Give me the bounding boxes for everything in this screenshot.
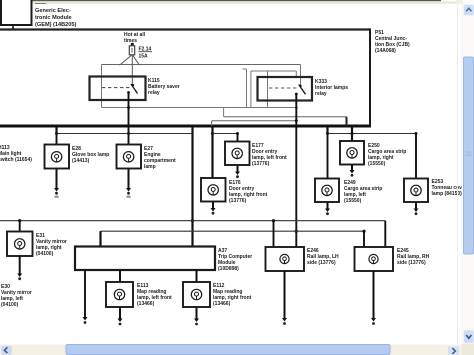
- wire bus y120.8: [212, 120, 297, 122]
- label E112: [213, 283, 252, 307]
- relay K115 battery saver: [90, 77, 146, 101]
- module A37 trip computer: [75, 247, 215, 271]
- wire E112 ground: [194, 307, 199, 325]
- lamp E113 map reading left: [106, 282, 133, 307]
- label H113: [0, 145, 32, 163]
- wire E177 tee: [213, 132, 240, 142]
- scrollbar horizontal thumb: [66, 345, 390, 355]
- wire stub E249: [326, 126, 328, 134]
- svg-text:times: times: [124, 38, 137, 44]
- label E176: [229, 180, 268, 204]
- wire K115 output: [127, 93, 130, 134]
- wire E31 ground: [17, 256, 22, 280]
- scrollbar horizontal right button: [448, 346, 460, 355]
- label K333: [315, 79, 348, 97]
- label P51 CJB: [375, 30, 410, 54]
- svg-text:(04100): (04100): [36, 251, 54, 257]
- wire E245 ground: [371, 271, 376, 325]
- svg-text:(13466): (13466): [213, 301, 231, 307]
- wire E113 ground: [118, 307, 123, 325]
- svg-text:(15550): (15550): [368, 161, 386, 167]
- lamp E246 rail LH: [266, 247, 305, 271]
- svg-text:(13776): (13776): [252, 161, 270, 167]
- wire E245 left drop: [363, 231, 365, 247]
- wire E253 ground: [414, 202, 419, 215]
- wire E245 right drop: [384, 221, 386, 247]
- lamp E249 cargo strip left: [315, 179, 339, 203]
- wire E28 drop: [56, 134, 58, 145]
- label E27: [144, 146, 176, 170]
- svg-text:lamp: lamp: [144, 164, 156, 170]
- wire trunk x193: [191, 126, 194, 247]
- wire fuse split V: [120, 55, 140, 85]
- svg-text:(04100): (04100): [1, 302, 19, 308]
- wire A37 ground 1: [83, 270, 88, 324]
- wire E250 ground: [350, 165, 355, 177]
- svg-text:Generic Elec-: Generic Elec-: [35, 8, 71, 14]
- lamp E253 tonneau cover: [404, 179, 428, 203]
- scrollbar horizontal left button: [1, 346, 12, 355]
- svg-text:switch (11654): switch (11654): [0, 157, 32, 163]
- scrollbar corner: [462, 344, 474, 355]
- label E253: [432, 179, 463, 197]
- wire E176 ground: [211, 202, 216, 215]
- toolbar bottom edge strip: [0, 0, 474, 4]
- label A37: [218, 248, 252, 272]
- lamp E176 door entry right front: [201, 178, 226, 202]
- svg-text:(14A068): (14A068): [375, 48, 396, 54]
- svg-text:(13776): (13776): [229, 198, 247, 204]
- wire riser x223.6: [223, 108, 225, 117]
- wire line A y220.7: [0, 219, 385, 222]
- wire fuse feed line y64.5: [102, 64, 301, 66]
- label E113: [137, 283, 172, 307]
- label GEM: [35, 1, 76, 28]
- wire stub E28: [55, 126, 57, 134]
- lamp E245 rail RH: [355, 247, 394, 271]
- label Hot at all times: [124, 32, 146, 44]
- label E28: [72, 146, 109, 164]
- wire E113 drop: [119, 270, 121, 282]
- wire E31 drop: [19, 221, 21, 232]
- wire dist right y133.5: [326, 132, 418, 135]
- wire E246 left drop: [273, 221, 275, 247]
- label K115: [148, 78, 180, 96]
- lamp E31 vanity mirror right: [7, 232, 33, 257]
- junction box CJB P51: [0, 29, 371, 128]
- svg-text:relay: relay: [315, 91, 327, 97]
- scrollbar vertical up button: [464, 5, 474, 16]
- wire dist left y133.5: [55, 132, 193, 135]
- scrollbar horizontal track: [0, 345, 462, 355]
- wire riser x211.6: [211, 121, 213, 126]
- svg-text:(14413): (14413): [72, 158, 90, 164]
- wire E27 ground: [126, 169, 131, 199]
- scrollbar vertical thumb: [464, 57, 474, 254]
- wire E177 ground: [235, 165, 240, 178]
- wire CJB left riser: [101, 65, 103, 108]
- label E245: [397, 248, 430, 266]
- scrollbar vertical track: [463, 0, 474, 355]
- scrollbar vertical down button: [464, 330, 474, 343]
- wire E246 ground: [282, 271, 287, 325]
- content right separator: [457, 0, 459, 344]
- label E246: [307, 248, 339, 266]
- wire K333 coil drop: [300, 65, 302, 87]
- wire E27 drop: [128, 134, 130, 145]
- lamp E250 cargo strip right: [340, 141, 364, 165]
- wire CJB left bus y108: [102, 107, 297, 109]
- label E249: [344, 180, 382, 204]
- svg-text:(13466): (13466): [137, 301, 155, 307]
- wire GEM to CJB: [12, 26, 14, 30]
- wire K333 output: [295, 94, 298, 247]
- wire bus y116.7: [224, 116, 347, 118]
- svg-text:(GEM) (14B205): (GEM) (14B205): [35, 22, 76, 28]
- wire riser x346.5: [346, 117, 348, 126]
- wire E249 drop: [327, 134, 329, 179]
- relay K333 interior lamps: [258, 77, 313, 101]
- svg-text:15A: 15A: [139, 54, 149, 60]
- wire E112 drop: [196, 270, 198, 282]
- wire stub E176: [211, 126, 214, 178]
- svg-text:(15550): (15550): [344, 198, 362, 204]
- wire line B y231.2: [101, 230, 366, 233]
- wire E28 ground: [54, 169, 59, 199]
- svg-text:side (13776): side (13776): [397, 260, 426, 266]
- label E250: [368, 143, 406, 167]
- label fuse F2.14: [139, 47, 153, 60]
- wire E253 drop: [415, 134, 417, 179]
- svg-text:side (13776): side (13776): [307, 260, 336, 266]
- lamp E28 glove box: [45, 145, 70, 169]
- lamp E27 engine compartment: [117, 145, 142, 169]
- label E31: [36, 233, 67, 257]
- label E177: [252, 143, 287, 167]
- module GEM box: [1, 0, 32, 25]
- wire A37 feed left: [99, 231, 101, 246]
- wire K333 nest rect: [243, 69, 298, 109]
- wire E249 ground: [325, 202, 330, 215]
- svg-text:tronic Module: tronic Module: [35, 15, 72, 21]
- fuse F2.14 15A: [129, 43, 134, 55]
- svg-text:——: ——: [35, 1, 47, 7]
- svg-text:(10D898): (10D898): [218, 266, 239, 272]
- label E30: [1, 284, 32, 308]
- wire stub E250: [351, 126, 353, 141]
- lamp E177 door entry left front: [225, 142, 250, 166]
- lamp E112 map reading right: [183, 282, 210, 307]
- svg-text:relay: relay: [148, 90, 160, 96]
